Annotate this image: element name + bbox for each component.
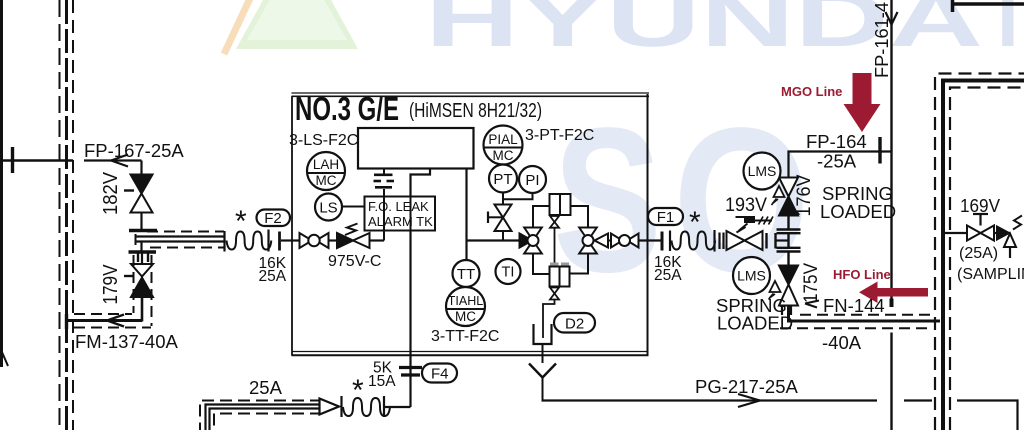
pipe internal fuel rail [467, 239, 520, 241]
valve relief upper [550, 216, 559, 263]
svg-text:FP-164: FP-164 [806, 131, 867, 152]
svg-text:FN-144: FN-144 [823, 295, 885, 316]
valve 176V spring loaded [772, 178, 799, 230]
instrument F1 oval [648, 208, 683, 225]
component HFO line arrow [859, 282, 928, 304]
pipe junction to engine connection [776, 230, 801, 252]
pipe outlet through box wall [639, 239, 663, 241]
svg-text:LS: LS [319, 200, 337, 217]
svg-text:PIAL: PIAL [488, 132, 518, 147]
svg-text:25A: 25A [259, 268, 287, 285]
svg-text:LOADED: LOADED [820, 201, 896, 222]
flange pair after 193V [767, 233, 776, 249]
svg-text:25A: 25A [249, 377, 283, 398]
flange pair lower with legs [129, 252, 157, 264]
wire engine-room boundary left (dash-solid-dash) [60, 0, 74, 430]
pipe FM-137-40A line with arrow [66, 314, 142, 329]
wire funnel drain with arrow [529, 344, 556, 401]
wire FP-167-25A line with arrow [84, 155, 142, 176]
wire F.O. leak drain vertical to F4 [399, 169, 430, 408]
component injection pump lower pair [550, 263, 570, 287]
wire engine internal header down [465, 169, 467, 261]
wire leak line up to engine with breather [374, 169, 395, 241]
svg-text:MC: MC [455, 309, 476, 324]
wire PT/PI sensing lines [503, 193, 533, 205]
svg-text:3-PT-F2C: 3-PT-F2C [525, 127, 594, 144]
wire FP-164 branch [789, 137, 892, 178]
svg-text:(25A): (25A) [959, 245, 998, 262]
svg-text:PI: PI [525, 172, 539, 189]
flange pair before 193V [720, 233, 724, 250]
pipe 25A double-wall bottom-left [200, 401, 322, 430]
instrument TT [453, 260, 480, 287]
valve 175V spring loaded [769, 252, 799, 316]
instrument F4 oval [422, 364, 457, 383]
wire FP-161-40A main vertical [886, 0, 898, 430]
wire LS to alarm tank [342, 206, 365, 208]
valve sampling spring check [994, 216, 1022, 259]
svg-text:LMS: LMS [737, 268, 766, 284]
valve three-way left with check [520, 228, 542, 254]
svg-text:ALARM TK: ALARM TK [368, 214, 433, 229]
svg-text:LOADED: LOADED [717, 313, 793, 334]
wire right boundary frame dash-solid-dash [935, 74, 1024, 430]
wire open arrow into hose [320, 399, 340, 415]
watermark green triangle logo [224, 0, 358, 54]
instrument F2 oval [257, 210, 291, 227]
svg-text:*: * [235, 205, 247, 238]
flexible hose F4 drain [342, 396, 411, 417]
svg-text:LAH: LAH [313, 157, 339, 172]
engine box NO.3 G/E border [292, 93, 650, 356]
node F.O. LEAK ALARM TK box [365, 197, 436, 231]
wire pump loop lower [533, 254, 588, 275]
wire jacket dashes FM line [74, 255, 152, 328]
svg-text:-25A: -25A [817, 151, 857, 172]
component drain funnel [534, 324, 552, 344]
svg-text:F.O. LEAK: F.O. LEAK [368, 199, 429, 214]
component injection pump upper pair [550, 194, 571, 215]
instrument D2 oval [554, 313, 595, 333]
svg-text:(HiMSEN 8H21/32): (HiMSEN 8H21/32) [409, 100, 542, 122]
svg-text:975V-C: 975V-C [328, 253, 381, 270]
instrument LAH/MC [307, 152, 345, 190]
svg-text:3-LS-F2C: 3-LS-F2C [289, 132, 358, 149]
wire 179V down to FM corner [141, 297, 144, 322]
wire jacket dashes around pipe [147, 232, 224, 248]
svg-text:*: * [689, 206, 701, 239]
svg-text:F2: F2 [264, 210, 282, 227]
pipe FP-167 double line horizontal [136, 234, 225, 251]
valve 169V sampling [945, 214, 994, 241]
svg-text:HFO Line: HFO Line [833, 267, 891, 282]
svg-text:TIAHL: TIAHL [448, 294, 483, 308]
svg-text:D2: D2 [565, 316, 584, 333]
svg-text:FP-167-25A: FP-167-25A [84, 140, 184, 161]
svg-text:175V: 175V [801, 263, 822, 303]
flange at box exit [661, 232, 664, 251]
svg-text:193V: 193V [725, 195, 767, 216]
pipe PG-217-25A drain line [542, 394, 1018, 430]
valve 182V screw-down check [124, 175, 153, 213]
svg-text:TI: TI [502, 265, 515, 281]
valve ball inlet [300, 233, 329, 248]
svg-text:NO.3 G/E: NO.3 G/E [295, 90, 399, 127]
instrument PIAL/MC [484, 126, 523, 165]
node FP-167 stub with tick [0, 147, 73, 173]
watermark SO letters row2 [553, 85, 810, 315]
pipe main inlet into box [292, 239, 300, 241]
valve outlet ball [611, 234, 639, 248]
svg-text:TT: TT [457, 266, 475, 283]
pipe FN-144 return line [780, 301, 940, 329]
svg-text:176V: 176V [794, 174, 815, 216]
svg-text:MGO Line: MGO Line [781, 84, 842, 99]
wire left border line [2, 0, 9, 367]
valve relief lower to drain [543, 288, 559, 339]
flexible hose left F2 [225, 230, 293, 252]
svg-text:F4: F4 [431, 366, 449, 383]
svg-text:MC: MC [493, 148, 514, 163]
valve three-way right with check [579, 228, 608, 254]
component MGO line arrow [844, 73, 881, 132]
svg-text:FP-161-4: FP-161-4 [872, 2, 892, 78]
instrument LMS lower [733, 257, 770, 294]
wire pump loop upper [533, 206, 588, 228]
svg-text:I: I [997, 0, 1019, 63]
svg-text:15A: 15A [368, 373, 396, 390]
valve 193V with actuator [727, 217, 774, 251]
svg-text:-40A: -40A [822, 332, 862, 353]
instrument LMS upper [744, 153, 781, 190]
valve 975V-C spring loaded [337, 224, 370, 249]
svg-text:PT: PT [493, 171, 512, 188]
node top-right box corner [951, 0, 1024, 12]
svg-text:3-TT-F2C: 3-TT-F2C [431, 328, 499, 345]
svg-text:*: * [352, 374, 364, 407]
svg-text:FM-137-40A: FM-137-40A [75, 331, 178, 352]
svg-text:MC: MC [316, 173, 337, 188]
svg-text:(SAMPLING: (SAMPLING [957, 266, 1024, 283]
svg-text:HYUNDA: HYUNDA [425, 0, 983, 63]
valve PT isolation [488, 205, 512, 232]
node engine connection blank box [358, 128, 474, 169]
svg-text:169V: 169V [960, 195, 1001, 216]
valve 179V screw-down check [124, 264, 153, 297]
svg-text:25A: 25A [654, 267, 682, 284]
instrument LS [315, 194, 342, 221]
instrument TIAHL/MC [446, 287, 485, 326]
svg-text:179V: 179V [100, 264, 122, 305]
instrument PI [519, 166, 546, 193]
svg-text:LMS: LMS [748, 163, 777, 179]
instrument PT [489, 165, 517, 193]
flange pair upper on vertical [129, 229, 157, 232]
svg-text:F1: F1 [657, 209, 675, 226]
instrument TI [496, 259, 521, 284]
wire 182V to flange [140, 213, 142, 230]
flexible hose right F1 [670, 230, 715, 252]
svg-text:182V: 182V [100, 171, 122, 215]
svg-text:PG-217-25A: PG-217-25A [695, 376, 798, 397]
